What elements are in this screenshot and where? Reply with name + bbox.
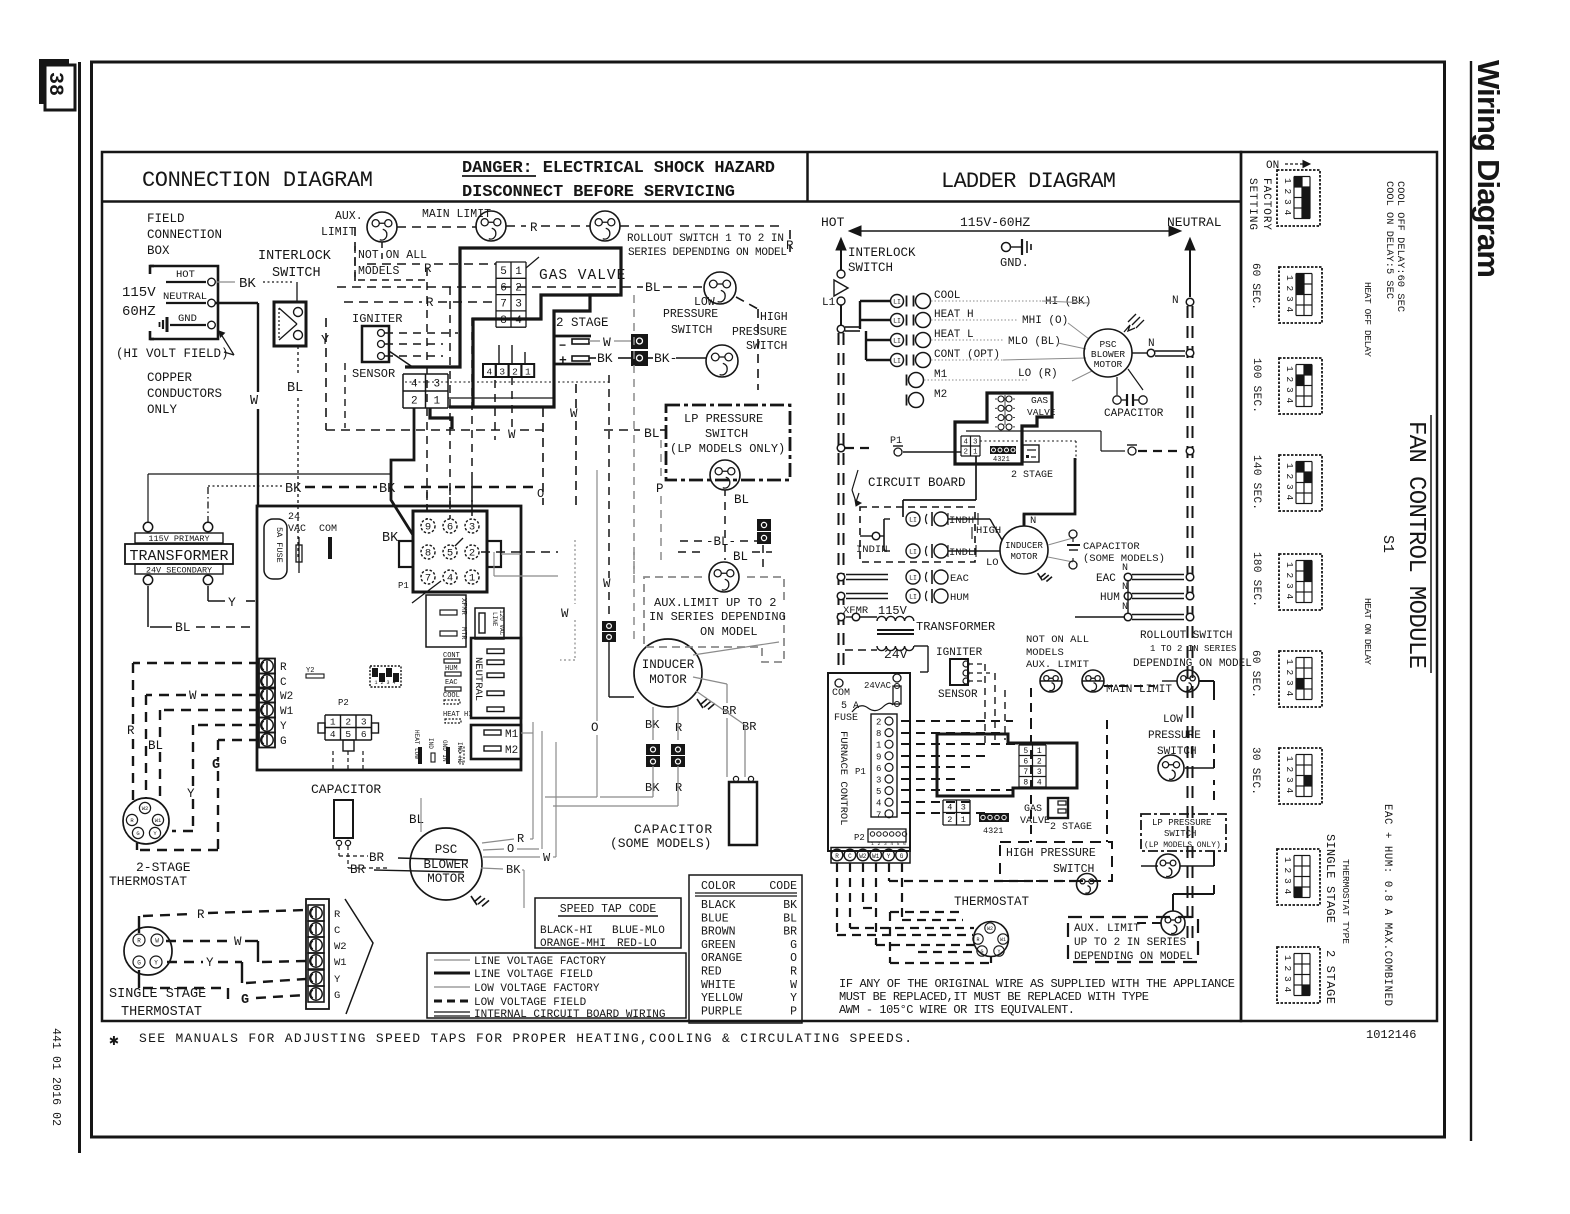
svg-text:W: W [189, 689, 197, 703]
wire W down from neutral [215, 302, 258, 304]
fan control module panel box [1241, 152, 1437, 1021]
svg-text:N: N [1148, 338, 1155, 350]
svg-text:Y: Y [334, 974, 341, 986]
4321 strip lower [979, 813, 1009, 822]
svg-text:G: G [280, 736, 287, 748]
svg-text:1: 1 [871, 841, 874, 847]
svg-text:1: 1 [1282, 178, 1293, 184]
low pressure switch circle [704, 272, 736, 304]
svg-text:4: 4 [1037, 779, 1042, 788]
svg-text:4: 4 [890, 841, 893, 847]
svg-text:O: O [507, 842, 514, 856]
svg-text:6: 6 [361, 729, 367, 740]
svg-text:SETTING: SETTING [1246, 178, 1258, 230]
svg-text:4: 4 [1282, 889, 1293, 895]
wires to pressure switches [1030, 720, 1032, 842]
psc capacitor ladder [1116, 377, 1118, 395]
svg-text:CAPACITOR: CAPACITOR [1083, 541, 1140, 553]
board bottom screws [831, 848, 910, 864]
page number badge 38 [39, 59, 69, 104]
svg-text:O: O [591, 721, 599, 735]
relay contact HEAT H [891, 314, 904, 327]
svg-text:THERMOSTAT TYPE: THERMOSTAT TYPE [1340, 859, 1351, 944]
svg-text:7: 7 [500, 299, 507, 311]
svg-text:4: 4 [1284, 691, 1295, 697]
neutral rail double line [1187, 306, 1189, 940]
svg-text:IF ANY OF THE ORIGINAL WIRE AS: IF ANY OF THE ORIGINAL WIRE AS SUPPLIED … [839, 977, 1235, 991]
svg-text:FACTORY: FACTORY [1260, 178, 1272, 230]
svg-text:115V PRIMARY: 115V PRIMARY [148, 534, 209, 544]
svg-text:LINE VOLTAGE FACTORY: LINE VOLTAGE FACTORY [474, 956, 606, 968]
inducer aux wire [693, 642, 779, 655]
svg-text:LINE VOLTAGE FIELD: LINE VOLTAGE FIELD [474, 969, 593, 981]
svg-text:Y: Y [228, 595, 236, 610]
svg-text:PRESSURE: PRESSURE [1148, 730, 1201, 742]
svg-text:NEUTRAL: NEUTRAL [163, 291, 207, 303]
svg-text:SWITCH: SWITCH [746, 340, 787, 353]
svg-text:2-STAGE: 2-STAGE [136, 860, 191, 875]
svg-text:4: 4 [1284, 495, 1295, 501]
svg-text:BL: BL [175, 620, 191, 635]
dip switch 60 SEC heat on [1279, 651, 1322, 707]
svg-text:4321: 4321 [983, 826, 1003, 836]
aux limit lower [1161, 911, 1185, 935]
furnace control board ladder [828, 673, 910, 851]
svg-text:RED-LO: RED-LO [617, 938, 657, 950]
svg-text:3: 3 [973, 439, 978, 447]
svg-text:MUST BE REPLACED,IT MUST BE RE: MUST BE REPLACED,IT MUST BE REPLACED WIT… [839, 990, 1149, 1004]
wires into 9pin connector [426, 490, 428, 519]
svg-text:2: 2 [1284, 474, 1295, 480]
svg-text:1: 1 [1284, 275, 1295, 281]
svg-text:W: W [234, 935, 242, 949]
svg-text:LI: LI [909, 517, 917, 524]
svg-text:24VAC: 24VAC [864, 681, 892, 691]
svg-text:BL: BL [733, 550, 748, 564]
inducer motor ladder [1000, 526, 1048, 574]
svg-text:ONLY: ONLY [147, 403, 178, 417]
svg-text:4: 4 [1284, 788, 1295, 794]
PSC blower motor conn [410, 828, 482, 900]
wire mesh mid verticals [426, 268, 428, 510]
dip switch 180 SEC [1279, 554, 1322, 610]
svg-text:SEE MANUALS FOR ADJUSTING SPEE: SEE MANUALS FOR ADJUSTING SPEED TAPS FOR… [139, 1031, 912, 1046]
svg-text:HOT: HOT [821, 215, 845, 230]
svg-text:O: O [790, 952, 797, 965]
svg-text:BR: BR [350, 863, 366, 877]
svg-text:INTERLOCK: INTERLOCK [258, 249, 332, 264]
svg-text:4: 4 [963, 439, 968, 447]
svg-text:W: W [570, 407, 578, 421]
relay contact COOL [891, 295, 904, 308]
capacitor some models ladder [1048, 538, 1073, 545]
svg-text:G: G [241, 993, 249, 1008]
circuit board outline [257, 506, 521, 770]
svg-text:Y: Y [997, 949, 1000, 955]
svg-text:LI: LI [909, 549, 917, 556]
svg-text:BL: BL [409, 813, 424, 827]
board pin column [871, 714, 897, 817]
ladder gas valve block upper [955, 393, 1052, 464]
svg-text:N: N [1030, 515, 1036, 527]
svg-text:HEAT H: HEAT H [934, 309, 974, 321]
svg-text:115V-60HZ: 115V-60HZ [960, 215, 1030, 230]
svg-text:CODE: CODE [769, 880, 797, 893]
svg-text:LO (R): LO (R) [1018, 368, 1058, 380]
P1 plug grid 4 3 2 1 [403, 373, 448, 375]
svg-text:4: 4 [411, 378, 418, 390]
svg-text:MTR: MTR [459, 627, 467, 640]
svg-text:MOTOR: MOTOR [1010, 552, 1038, 562]
svg-text:COOL: COOL [934, 290, 960, 302]
svg-text:LI: LI [909, 575, 917, 582]
svg-text:PRESSURE: PRESSURE [663, 308, 718, 321]
svg-text:P2: P2 [338, 698, 349, 708]
pins up from 4321 [498, 345, 500, 364]
psc blower motor ladder [1084, 329, 1132, 377]
svg-text:1: 1 [525, 367, 531, 378]
svg-text:S1: S1 [1379, 535, 1396, 553]
svg-text:LP PRESSURE: LP PRESSURE [684, 412, 763, 426]
svg-text:PURPLE: PURPLE [701, 1005, 743, 1018]
svg-text:GND.: GND. [1000, 256, 1029, 270]
svg-text:THERMOSTAT: THERMOSTAT [109, 874, 187, 889]
svg-text:3: 3 [1282, 976, 1293, 982]
psc to neutral [1132, 352, 1147, 354]
igniter area dashed edge [344, 363, 346, 428]
svg-text:3: 3 [1282, 199, 1293, 205]
wire interlock down BL [297, 346, 299, 375]
svg-text:SWITCH: SWITCH [272, 266, 321, 281]
svg-text:CAPACITOR: CAPACITOR [311, 782, 381, 797]
svg-text:P1: P1 [855, 767, 866, 777]
svg-text:EAC: EAC [1096, 573, 1116, 585]
svg-text:6: 6 [1023, 758, 1028, 767]
svg-text:AUX. LIMIT: AUX. LIMIT [1074, 923, 1140, 935]
svg-text:INDUCER: INDUCER [642, 658, 695, 672]
svg-text:IGNITER: IGNITER [352, 312, 402, 326]
svg-text:6: 6 [876, 764, 881, 774]
svg-text:MOTOR: MOTOR [1094, 359, 1123, 370]
svg-text:AUX.LIMIT UP TO 2: AUX.LIMIT UP TO 2 [654, 596, 776, 610]
svg-text:BLACK: BLACK [701, 899, 736, 912]
gas valve assembly lower [937, 734, 1077, 796]
svg-text:C: C [280, 677, 287, 689]
svg-text:2: 2 [947, 815, 952, 825]
fuse element [298, 537, 300, 573]
svg-text:(HI VOLT FIELD): (HI VOLT FIELD) [116, 347, 229, 361]
svg-text:BK: BK [285, 482, 302, 497]
igniter leads [385, 332, 458, 334]
2 stage connector conn [554, 336, 591, 364]
svg-text:LI: LI [893, 299, 901, 306]
svg-text:1: 1 [1284, 659, 1295, 665]
svg-text:1: 1 [433, 395, 440, 407]
rollout switch [590, 211, 620, 241]
transformer T1 [143, 522, 152, 531]
svg-text:W2: W2 [987, 926, 993, 932]
dotted wire valve to heavy [980, 440, 1076, 442]
svg-text:ORANGE-MHI: ORANGE-MHI [540, 938, 606, 950]
svg-text:G: G [790, 939, 797, 952]
molex 4321 connector [483, 364, 496, 377]
svg-text:RED: RED [701, 966, 722, 979]
single stage thermostat [124, 927, 172, 975]
heavy wire gas valve to inducer [1024, 458, 1075, 525]
svg-text:Y: Y [321, 334, 329, 349]
svg-text:FUSE: FUSE [834, 713, 858, 724]
svg-text:CONNECTION DIAGRAM: CONNECTION DIAGRAM [142, 168, 373, 193]
svg-text:3: 3 [499, 367, 505, 378]
vertical wires igniter to valve [984, 664, 986, 745]
svg-text:P1: P1 [398, 581, 409, 591]
svg-text:W2: W2 [142, 805, 149, 812]
svg-text:9: 9 [425, 522, 431, 534]
svg-text:2: 2 [1282, 189, 1293, 195]
svg-text:4: 4 [1284, 398, 1295, 404]
svg-text:G: G [334, 990, 340, 1002]
svg-text:60HZ: 60HZ [122, 304, 156, 320]
svg-text:3: 3 [876, 776, 881, 786]
svg-text:MOTOR: MOTOR [427, 872, 465, 886]
svg-text:2: 2 [1284, 377, 1295, 383]
IND LOW relay [884, 550, 890, 552]
legend box [427, 953, 686, 1018]
svg-text:2: 2 [345, 717, 351, 728]
svg-text:1: 1 [1284, 756, 1295, 762]
svg-text:BL: BL [645, 280, 661, 295]
svg-text:180 SEC.: 180 SEC. [1250, 552, 1262, 607]
ladder ground symbol [1002, 243, 1011, 252]
left page rule [78, 62, 81, 1153]
svg-text:3: 3 [1284, 296, 1295, 302]
svg-text:2: 2 [1284, 767, 1295, 773]
svg-text:ROLLOUT SWITCH: ROLLOUT SWITCH [1140, 630, 1232, 642]
svg-text:W1: W1 [280, 706, 294, 718]
svg-text:5: 5 [897, 841, 900, 847]
svg-text:6: 6 [500, 282, 507, 294]
svg-text:BK: BK [597, 351, 613, 366]
svg-text:COOL OFF DELAY:60 SEC: COOL OFF DELAY:60 SEC [1394, 181, 1406, 312]
heavy gas valve supply loop [405, 248, 621, 407]
svg-text:8: 8 [500, 315, 507, 327]
svg-text:PRESSURE: PRESSURE [732, 326, 787, 339]
svg-text:BL: BL [148, 739, 163, 753]
svg-text:FURNACE CONTROL: FURNACE CONTROL [837, 731, 849, 826]
svg-text:R: R [137, 937, 141, 944]
svg-text:W: W [543, 851, 551, 865]
M1 M2 block [471, 725, 521, 759]
svg-text:VAC: VAC [288, 524, 306, 535]
svg-text:R: R [835, 853, 839, 860]
aux limit switch ladder [1040, 670, 1062, 692]
high pressure switch circle [706, 345, 738, 377]
relay contact CONT OPT [891, 354, 904, 367]
svg-text:MHI (O): MHI (O) [1022, 315, 1068, 327]
svg-text:LI: LI [893, 318, 901, 325]
svg-text:2: 2 [1284, 670, 1295, 676]
svg-text:SWITCH: SWITCH [705, 427, 748, 441]
2 stage thermostat [123, 798, 169, 844]
svg-text:R: R [790, 966, 797, 979]
svg-text:MODELS: MODELS [358, 265, 400, 278]
neutral rail arrow [1185, 238, 1195, 250]
svg-text:BLACK-HI: BLACK-HI [540, 925, 593, 937]
svg-text:1: 1 [515, 266, 522, 278]
svg-text:N: N [1122, 582, 1128, 593]
svg-text:CONT (OPT): CONT (OPT) [934, 349, 1000, 361]
svg-text:CONDUCTORS: CONDUCTORS [147, 387, 222, 401]
svg-text:30 SEC.: 30 SEC. [1249, 747, 1261, 795]
svg-text:SWITCH: SWITCH [848, 261, 893, 275]
COLOR CODE box [689, 875, 802, 1023]
svg-text:XFMR: XFMR [459, 598, 467, 616]
svg-text:-BL-: -BL- [706, 535, 736, 549]
svg-text:M1: M1 [934, 369, 948, 381]
aux to main wires [1040, 680, 1062, 682]
svg-text:4: 4 [947, 802, 952, 812]
4321 strip ladder [990, 446, 1016, 454]
svg-text:1: 1 [330, 717, 336, 728]
svg-text:2: 2 [1037, 758, 1042, 767]
svg-text:140 SEC.: 140 SEC. [1250, 455, 1262, 510]
svg-text:Y: Y [887, 853, 891, 860]
svg-text:GAS: GAS [1031, 395, 1048, 406]
svg-text:COM: COM [319, 524, 337, 535]
svg-text:W1: W1 [155, 817, 162, 824]
svg-text:1012146: 1012146 [1366, 1028, 1416, 1042]
svg-text:M2: M2 [934, 389, 947, 401]
svg-text:2: 2 [878, 841, 881, 847]
svg-text:LI: LI [893, 358, 901, 365]
svg-text:R: R [530, 221, 538, 235]
svg-text:5 A: 5 A [841, 701, 859, 712]
LP pressure switch circle [710, 460, 740, 490]
svg-text:LIMIT: LIMIT [321, 226, 356, 239]
board dip switch [370, 666, 401, 687]
svg-text:4: 4 [330, 729, 336, 740]
dip switch 30 SEC [1279, 748, 1322, 804]
svg-text:2: 2 [469, 548, 475, 560]
svg-text:HIGH: HIGH [760, 311, 788, 324]
svg-text:BK: BK [506, 863, 521, 877]
svg-text:3: 3 [1284, 777, 1295, 783]
dip switch 140 SEC [1279, 455, 1322, 511]
svg-text:LADDER DIAGRAM: LADDER DIAGRAM [941, 169, 1116, 194]
svg-text:4321: 4321 [993, 456, 1010, 464]
svg-text:3: 3 [1284, 583, 1295, 589]
svg-text:BLOWER: BLOWER [423, 858, 469, 872]
aux limit series box conn [644, 577, 784, 662]
svg-text:SPEED TAP CODE: SPEED TAP CODE [560, 903, 657, 916]
svg-text:HIGH PRESSURE: HIGH PRESSURE [1006, 847, 1096, 860]
board terminal screws [259, 659, 275, 674]
svg-text:HEAT ON DELAY: HEAT ON DELAY [1362, 598, 1373, 665]
contact pairs inducer [646, 744, 660, 755]
svg-text:8: 8 [876, 729, 881, 739]
svg-text:G: G [212, 758, 220, 773]
dip switch SINGLE STAGE [1277, 849, 1320, 905]
motor tap wires [482, 839, 514, 843]
svg-text:GAS: GAS [1024, 804, 1042, 815]
svg-text:(SOME MODELS): (SOME MODELS) [610, 836, 711, 851]
svg-text:SINGLE STAGE: SINGLE STAGE [1323, 834, 1337, 923]
Wiring Diagram title rule [1470, 61, 1472, 1141]
svg-text:5: 5 [1023, 747, 1028, 756]
svg-text:W: W [250, 394, 259, 409]
svg-text:EAC + HUM: 0.8 A MAX.COMBINED: EAC + HUM: 0.8 A MAX.COMBINED [1381, 804, 1393, 1006]
svg-text:N: N [1172, 295, 1179, 307]
svg-text:120 VAC: 120 VAC [498, 610, 505, 636]
wires right of connector [481, 551, 558, 553]
svg-text:2: 2 [411, 395, 418, 407]
main limit switch ladder [1082, 670, 1104, 692]
aux limit series box ladder [1068, 917, 1198, 962]
svg-text:−: − [559, 339, 566, 353]
wire from igniter to connector [389, 351, 414, 368]
svg-text:6: 6 [903, 841, 906, 847]
svg-text:5: 5 [345, 729, 351, 740]
svg-text:8: 8 [1023, 779, 1028, 788]
contact M1 [906, 375, 908, 386]
svg-text:BOX: BOX [147, 244, 170, 258]
svg-text:3: 3 [1284, 387, 1295, 393]
svg-text:SWITCH: SWITCH [1164, 829, 1196, 839]
svg-text:BK: BK [239, 276, 256, 292]
svg-text:LOW VOLTAGE FIELD: LOW VOLTAGE FIELD [474, 997, 587, 1009]
contact M2 [906, 395, 908, 406]
svg-text:NOT ON ALL: NOT ON ALL [358, 249, 427, 262]
svg-text:3: 3 [1284, 484, 1295, 490]
ground symbol field box [166, 317, 169, 332]
svg-text:3: 3 [433, 378, 440, 390]
svg-text:Y: Y [154, 959, 158, 966]
svg-text:1: 1 [1284, 366, 1295, 372]
svg-text:2: 2 [515, 282, 522, 294]
wire from rollout right [620, 225, 783, 227]
svg-text:1: 1 [1037, 747, 1042, 756]
dip switch FACTORY SETTING [1277, 170, 1320, 226]
svg-text:LINE: LINE [491, 612, 498, 627]
hot rail double line [838, 333, 840, 668]
svg-text:SENSOR: SENSOR [352, 367, 395, 381]
svg-text:G: G [980, 949, 983, 955]
svg-text:BL: BL [644, 426, 660, 441]
single stage terminal strip [306, 899, 329, 1009]
voltage span arrow [856, 230, 1174, 232]
svg-text:FAN CONTROL MODULE: FAN CONTROL MODULE [1402, 421, 1429, 669]
svg-text:R: R [334, 909, 341, 921]
svg-text:5: 5 [876, 787, 881, 797]
svg-text:INTERLOCK: INTERLOCK [848, 246, 916, 260]
gas valve plug grid [496, 261, 526, 263]
contact block pair [631, 334, 648, 349]
svg-text:INDH: INDH [949, 515, 974, 527]
svg-text:LOW VOLTAGE FACTORY: LOW VOLTAGE FACTORY [474, 983, 600, 995]
svg-text:R: R [197, 908, 205, 922]
svg-text:1 TO 2 IN SERIES: 1 TO 2 IN SERIES [1150, 644, 1236, 654]
svg-text:W2: W2 [334, 941, 347, 953]
svg-text:NEUTRAL: NEUTRAL [1167, 215, 1222, 230]
svg-text:DEPENDING ON MODEL: DEPENDING ON MODEL [1074, 951, 1193, 963]
svg-text:W2: W2 [280, 691, 293, 703]
svg-text:2: 2 [1284, 286, 1295, 292]
wires to inducer motor ladder [948, 518, 990, 520]
svg-text:1: 1 [961, 815, 966, 825]
IND HIGH relay [884, 518, 890, 520]
svg-text:O: O [537, 487, 544, 501]
dip switch 60 SEC heat off [1279, 267, 1322, 323]
